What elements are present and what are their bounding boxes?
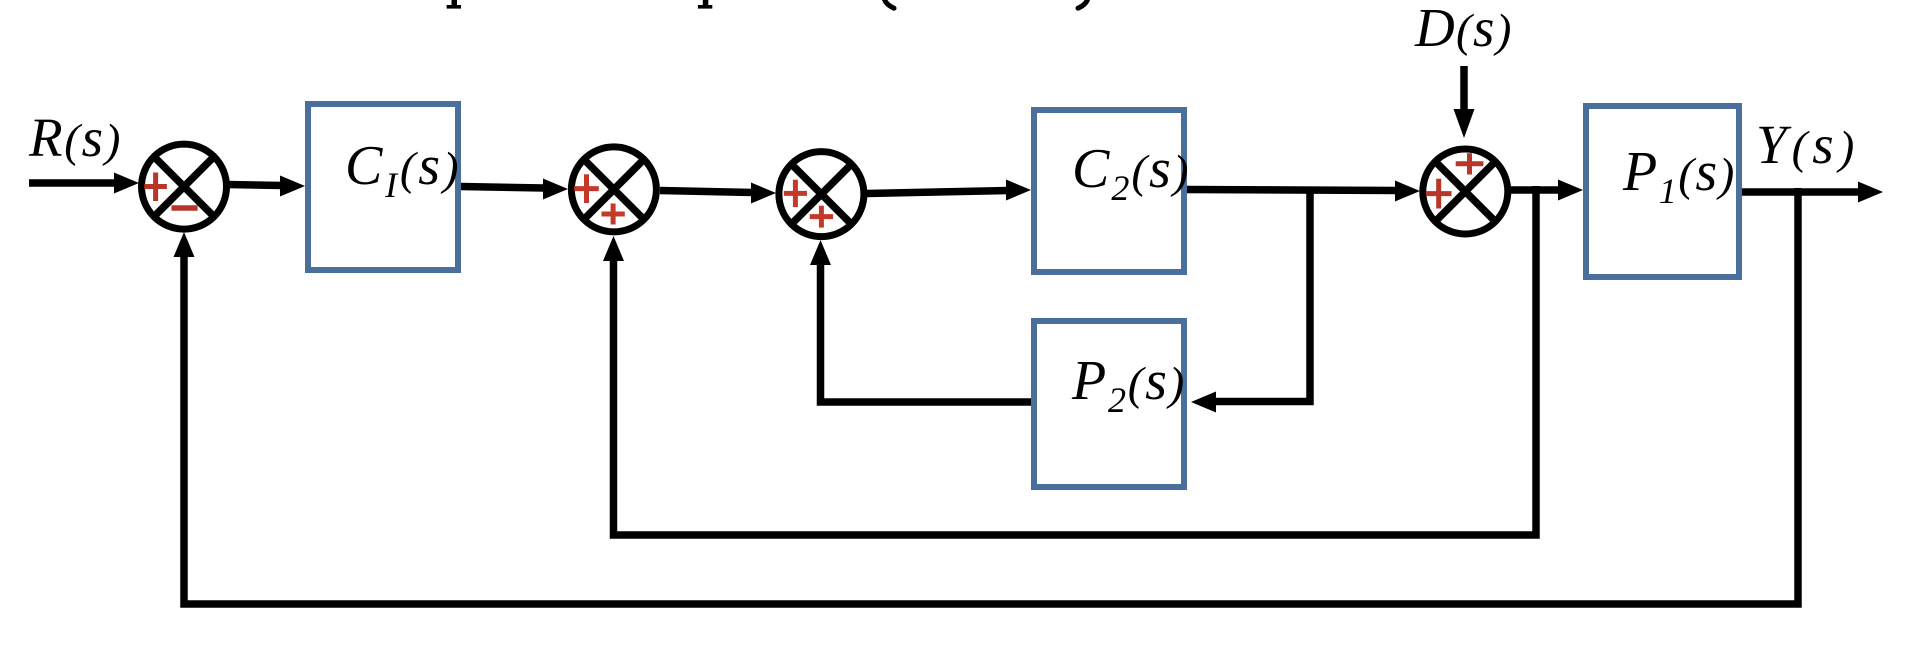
wire D(s) into S4 (1454, 66, 1475, 138)
sign minus at S1 (172, 205, 198, 211)
wire S3 to C2 (867, 180, 1031, 201)
cropped left parenthesis fragment (884, 0, 894, 8)
wire S1 to C_I (227, 176, 305, 197)
wire S4 to P1 (1508, 180, 1583, 201)
sign plus top at S4 (1456, 153, 1484, 174)
wire C2 to S4 with junction node (1187, 181, 1420, 202)
summing junction S1 (142, 144, 227, 229)
svg-text:C2(s): C2(s) (1072, 138, 1190, 208)
wire P2 output up into S3 (810, 240, 1031, 402)
cropped text descender fragment 2 (698, 0, 712, 9)
wire P1 to output arrow (1742, 182, 1883, 203)
wire feedback tap from C2 output down into P2 (1191, 187, 1310, 413)
block C_I(s) (308, 104, 458, 270)
block P2(s) (1034, 321, 1184, 487)
svg-text:D(s): D(s) (1414, 0, 1513, 58)
block P1(s) (1586, 106, 1739, 277)
sign plus bottom at S2 (602, 204, 625, 225)
wire S2 to S3 (660, 183, 776, 204)
summing junction S2 (571, 147, 656, 232)
summing junction S3 (779, 152, 864, 237)
wire inner feedback from S4 output down and into S2 (603, 186, 1536, 535)
sign plus at S1 (144, 173, 167, 202)
wire outer feedback from Y output down and into S1 (174, 188, 1799, 604)
sign plus bottom at S3 (810, 206, 833, 228)
cropped text descender fragment 1 (447, 0, 461, 9)
sign plus left at S2 (574, 174, 599, 203)
sign plus left at S3 (784, 180, 807, 207)
svg-text:P2(s): P2(s) (1071, 350, 1186, 420)
svg-text:CI(s): CI(s) (345, 135, 461, 205)
wire C_I to S2 (461, 179, 568, 200)
svg-text:P1(s): P1(s) (1622, 141, 1736, 211)
block C2(s) (1034, 110, 1184, 272)
summing junction S4 (1423, 149, 1508, 234)
svg-text:R(s): R(s) (28, 107, 122, 168)
svg-text:Y(s): Y(s) (1756, 114, 1859, 175)
cropped right parenthesis fragment (1078, 0, 1088, 8)
sign plus left at S4 (1426, 179, 1452, 209)
wire R(s) input arrow into S1 (29, 173, 139, 194)
